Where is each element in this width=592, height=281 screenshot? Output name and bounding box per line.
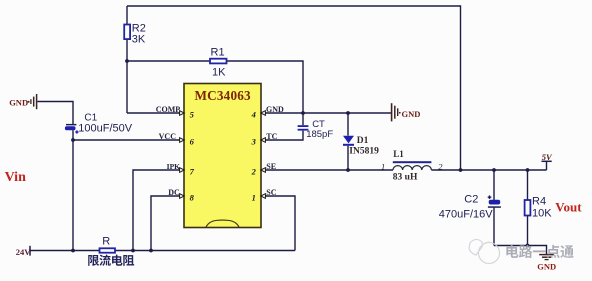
svg-text:GND: GND xyxy=(266,105,284,114)
svg-text:6: 6 xyxy=(190,136,195,146)
wire node to R1 xyxy=(127,60,210,62)
svg-text:3K: 3K xyxy=(132,34,146,46)
svg-text:Vin: Vin xyxy=(5,170,26,185)
svg-text:R: R xyxy=(102,235,110,247)
wire CT top lead xyxy=(302,113,304,125)
5V power port xyxy=(546,162,548,170)
wire pin1 SC loop xyxy=(261,196,295,251)
svg-text:1K: 1K xyxy=(212,66,226,78)
svg-text:D1: D1 xyxy=(357,136,369,146)
wire pin7 IPK xyxy=(133,170,184,251)
svg-text:7: 7 xyxy=(190,166,195,176)
svg-text:83 uH: 83 uH xyxy=(393,172,418,182)
svg-text:DC: DC xyxy=(168,188,180,197)
wire pin8 DC xyxy=(151,196,184,251)
ground (bottom right) xyxy=(539,254,554,256)
svg-text:GND: GND xyxy=(9,97,28,107)
svg-text:SC: SC xyxy=(266,188,276,197)
svg-text:10K: 10K xyxy=(532,207,552,219)
svg-text:C2: C2 xyxy=(464,193,478,205)
svg-text:IPK: IPK xyxy=(167,162,181,171)
svg-text:IN5819: IN5819 xyxy=(349,146,379,156)
op IC U1 MC34063 body xyxy=(184,84,261,228)
resistor R1 xyxy=(210,59,227,64)
pin 3 arrow xyxy=(261,138,268,143)
pin 7 arrow xyxy=(178,168,185,173)
svg-text:5: 5 xyxy=(190,109,195,119)
label 限流电阻 xyxy=(88,255,99,266)
wire R1 to vertical xyxy=(227,61,304,113)
capacitor C1 electrolytic xyxy=(66,124,76,126)
top rail wire from R2 to output node xyxy=(127,6,461,170)
svg-text:24V: 24V xyxy=(16,247,31,257)
svg-text:185pF: 185pF xyxy=(306,129,333,140)
ground (left) xyxy=(30,99,32,104)
wire pin6 VCC xyxy=(73,139,184,141)
svg-text:L1: L1 xyxy=(393,149,404,159)
wire C2 top lead xyxy=(493,170,495,200)
wire R2 bottom to COMP node xyxy=(126,39,128,113)
svg-text:TC: TC xyxy=(266,132,277,141)
diode D1 xyxy=(343,136,354,144)
wire to pin5 COMP xyxy=(127,112,184,114)
watermark text 电路一点通 xyxy=(506,245,518,258)
ground (right of pin4) xyxy=(391,103,393,121)
capacitor CT xyxy=(298,125,309,127)
wire pin2 SE to L1 xyxy=(261,169,393,171)
svg-text:1: 1 xyxy=(252,192,256,202)
svg-text:Vout: Vout xyxy=(555,199,582,214)
svg-text:470uF/16V: 470uF/16V xyxy=(439,208,493,220)
wire 24V bottom rail xyxy=(31,250,100,252)
svg-text:8: 8 xyxy=(190,192,195,202)
pin 4 arrow xyxy=(261,111,268,116)
inductor L1 xyxy=(393,161,432,163)
svg-text:R4: R4 xyxy=(532,195,546,207)
watermark logo circle xyxy=(469,239,500,263)
svg-text:100uF/50V: 100uF/50V xyxy=(78,123,132,135)
wire R2 top lead xyxy=(126,6,128,25)
svg-text:3: 3 xyxy=(251,136,257,146)
wire pin4 GND row xyxy=(261,112,391,114)
svg-text:MC34063: MC34063 xyxy=(195,88,252,103)
pin 2 arrow xyxy=(261,168,268,173)
svg-text:R1: R1 xyxy=(211,46,225,58)
resistor R2 xyxy=(124,25,130,40)
wire D1 bottom lead xyxy=(347,146,349,170)
svg-text:GND: GND xyxy=(402,109,421,119)
svg-text:GND: GND xyxy=(537,262,556,272)
pin 5 arrow xyxy=(178,111,185,116)
pin 6 arrow xyxy=(178,138,185,143)
svg-text:2: 2 xyxy=(438,161,443,171)
wire GND left to C1 top xyxy=(37,102,73,125)
pin 8 arrow xyxy=(178,194,185,199)
svg-text:4: 4 xyxy=(251,109,256,119)
wire D1 top lead xyxy=(347,113,349,136)
svg-text:VCC: VCC xyxy=(159,132,177,141)
svg-text:SE: SE xyxy=(266,162,276,171)
wire CT bottom lead to pin3 xyxy=(261,131,303,140)
resistor R (current limit) xyxy=(100,248,116,252)
wire L1 to 5V output xyxy=(431,169,546,171)
svg-text:5V: 5V xyxy=(542,152,553,162)
24V power port xyxy=(29,246,31,256)
junction dots xyxy=(125,59,129,63)
pin 1 arrow xyxy=(261,194,268,199)
capacitor C2 electrolytic xyxy=(489,200,501,205)
wire C1 bottom down to 24V rail xyxy=(72,130,74,250)
wire R4 leads xyxy=(527,170,529,200)
wire bottom rail right of R xyxy=(115,250,295,252)
svg-text:2: 2 xyxy=(251,166,257,176)
wire C2 bottom lead xyxy=(493,208,495,246)
svg-text:COMP: COMP xyxy=(156,105,181,114)
svg-text:1: 1 xyxy=(381,161,385,171)
wire bottom right to GND xyxy=(494,246,547,255)
resistor R4 xyxy=(525,200,531,216)
